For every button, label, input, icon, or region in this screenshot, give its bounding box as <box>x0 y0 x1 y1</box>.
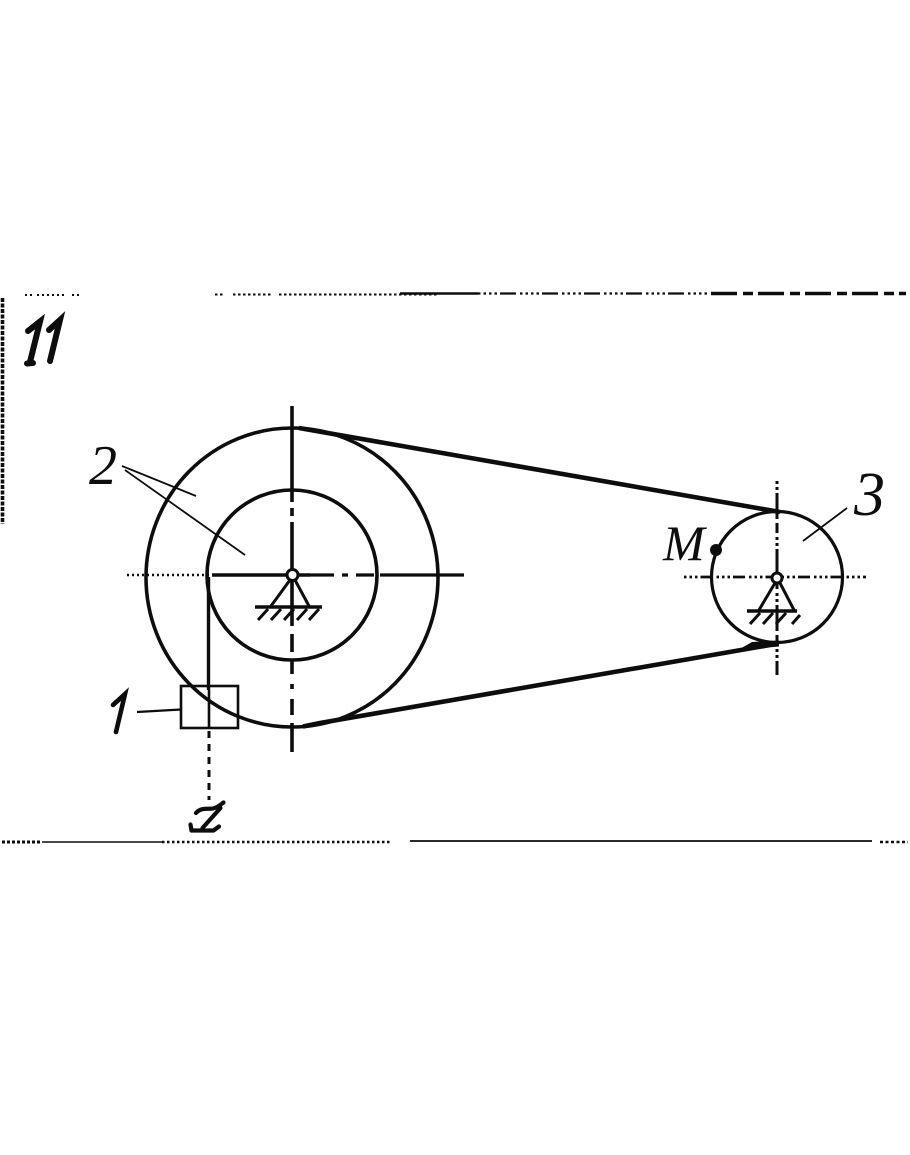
ground line pulley 3 <box>747 609 797 612</box>
fixed support triangle pulley 3 <box>759 583 794 610</box>
horizontal centerline pulley 2 <box>127 574 464 577</box>
leader line label 3 <box>803 508 847 541</box>
svg-text:3: 3 <box>853 461 885 529</box>
pulley 3 circle <box>712 512 843 643</box>
cord through block <box>208 690 211 728</box>
label 1 numeral stroke <box>113 694 125 732</box>
pin joint pulley 3 <box>772 573 782 583</box>
bottom border rule <box>2 841 908 842</box>
leader lines label 2 <box>122 466 245 555</box>
ground hatching pulley 3 <box>750 613 800 624</box>
left border rule <box>1 298 5 524</box>
pulley 2 outer circle <box>146 428 438 727</box>
ground line pulley 2 <box>255 605 322 609</box>
belt upper run <box>299 428 780 512</box>
label x glyph <box>191 803 224 831</box>
belt lower merge wedge at pulley 3 <box>738 641 779 651</box>
horizontal centerline pulley 3 <box>684 576 866 579</box>
vertical centerline pulley 2 <box>290 406 294 752</box>
ground hatching pulley 2 <box>258 609 319 620</box>
svg-text:M: M <box>662 515 707 571</box>
fixed support triangle pulley 2 <box>271 580 309 606</box>
vertical centerline pulley 3 <box>776 481 779 675</box>
belt lower run <box>303 645 770 727</box>
svg-text:2: 2 <box>89 435 117 497</box>
cord from inner pulley to block 1 <box>207 577 210 690</box>
pulley 2 inner circle <box>207 490 377 660</box>
block 1 <box>181 686 238 728</box>
figure number 11 <box>27 320 60 364</box>
dashed x-axis below block <box>208 731 211 800</box>
pin joint pulley 2 <box>287 570 298 581</box>
top border rule <box>25 294 906 296</box>
point M dot <box>710 544 722 556</box>
leader line label 1 <box>137 710 181 713</box>
